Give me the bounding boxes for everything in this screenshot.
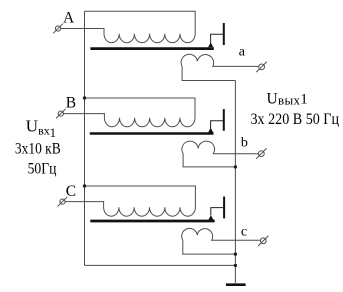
svg-text:c: c <box>241 224 247 239</box>
screen electrode of T1 (bar with arrow onto core) <box>208 23 224 47</box>
terminal c (output phase c) <box>258 236 268 246</box>
transformer T1 secondary winding W2 (phase a) <box>181 54 259 80</box>
svg-text:a: a <box>239 45 246 60</box>
wire: right neutral bus <box>234 81 236 284</box>
svg-text:A: A <box>63 10 75 27</box>
ground <box>226 283 246 286</box>
transformer T2 secondary winding W2 (phase b) <box>182 141 259 167</box>
node: junction of T3 secondary with neutral bus <box>234 252 237 255</box>
terminal a (output phase a) <box>256 62 266 72</box>
svg-text:Uвх1: Uвх1 <box>26 117 56 141</box>
svg-text:C: C <box>66 183 76 200</box>
svg-text:3x10 кВ: 3x10 кВ <box>15 141 61 158</box>
node: junction of bottom wire with neutral bus <box>234 264 237 267</box>
core of transformer T1 (ferromagnetic core bar) <box>90 47 213 50</box>
node: junction of T2 secondary with neutral bus <box>234 165 237 168</box>
svg-text:3x 220 В 50 Гц: 3x 220 В 50 Гц <box>251 111 340 128</box>
screen electrode of T2 (bar with arrow onto core) <box>208 109 224 133</box>
svg-text:Uвых1: Uвых1 <box>267 90 309 107</box>
wire: bottom neutral wire <box>85 264 236 266</box>
transformer T3 secondary winding W2 (phase c) <box>182 228 261 254</box>
terminal C (input phase C) <box>58 197 68 207</box>
svg-text:50Гц: 50Гц <box>28 161 57 178</box>
transformer T2 primary winding W1 (phase B) with box outline <box>63 98 195 127</box>
transformer T3 primary winding W1 (phase C) with box outline <box>65 186 195 216</box>
screen electrode of T3 (bar with arrow onto core) <box>208 197 224 221</box>
svg-text:b: b <box>241 136 248 151</box>
node: junction of box T2 top with left bus <box>83 96 86 99</box>
core of transformer T3 (ferromagnetic core bar) <box>90 220 214 223</box>
node: junction of box T3 top with left bus <box>83 184 86 187</box>
terminal b (output phase b) <box>256 148 266 158</box>
core of transformer T2 (ferromagnetic core bar) <box>90 132 214 135</box>
svg-text:B: B <box>66 95 76 112</box>
wire: left phase bus (top of box T1 down to bottom neutral wire) <box>84 11 86 265</box>
transformer T1 primary winding W1 (phase A) with box outline <box>61 11 196 43</box>
terminal B (input phase B) <box>56 109 66 119</box>
terminal A (input phase A) <box>53 24 63 34</box>
